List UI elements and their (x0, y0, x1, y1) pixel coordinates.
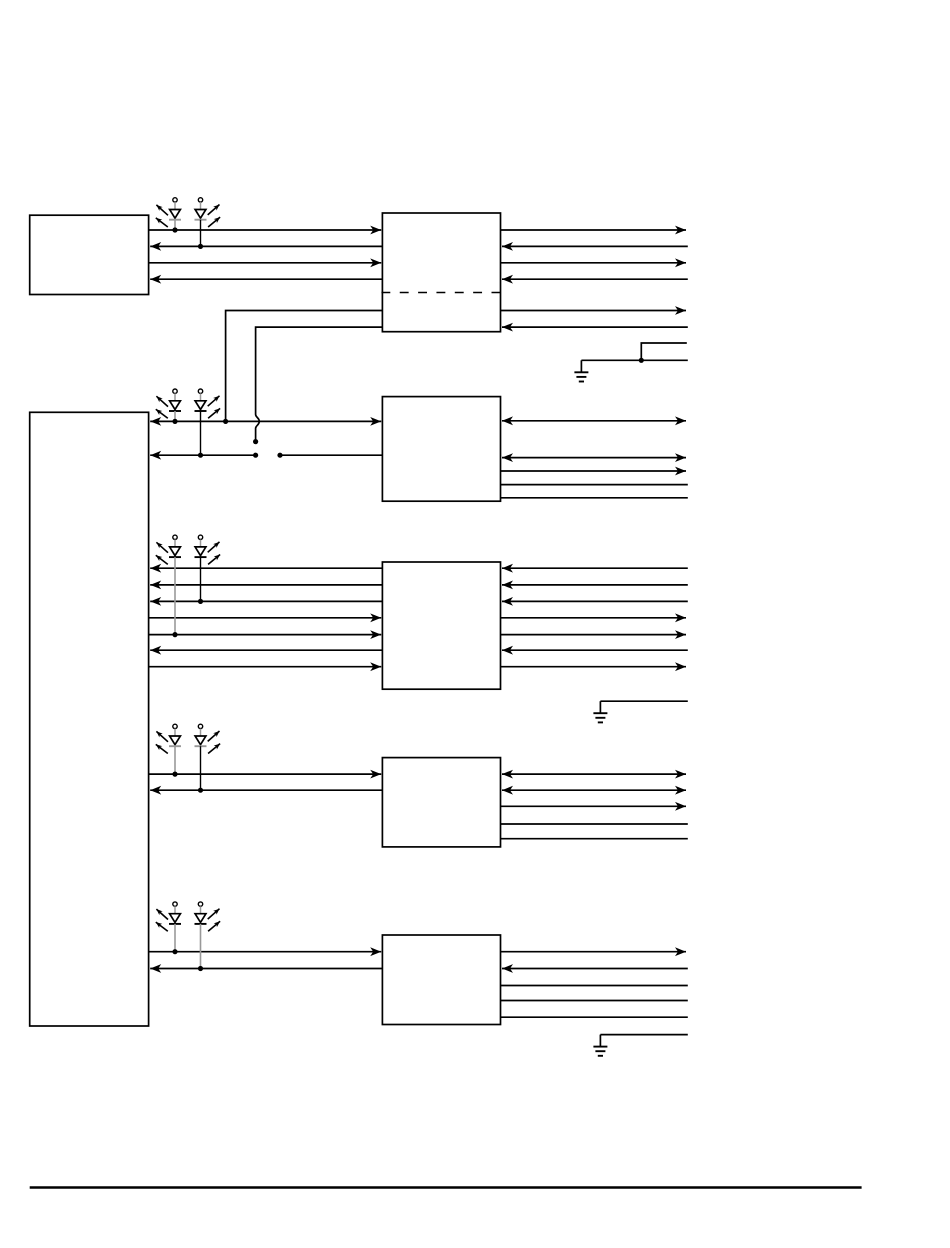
switch common contact dot (253, 439, 258, 444)
wire U5 to U2 line 1 (150, 567, 382, 569)
wire signal ground lower (581, 359, 687, 361)
LED DS4a (left, anode stem to wire) (169, 724, 181, 746)
LED DS1a (left, anode stem to wire) (169, 198, 181, 220)
wire U2 TX to U6 (149, 773, 382, 775)
wire U7 to U2 RX (150, 968, 382, 970)
wire CTS in to U3 (502, 278, 688, 280)
wire U4 line 4 (501, 484, 688, 486)
wire U5 to U2 line 2 (150, 584, 382, 586)
LED DS5b cathode lead (200, 924, 202, 969)
switch contact dot right (277, 453, 282, 458)
wire U5 out line 5 (501, 634, 687, 636)
wire in to U5 line 2 (502, 584, 688, 586)
junction dot LED DS1b (198, 244, 203, 249)
LED DS5b (right) (195, 902, 207, 924)
junction dot ground net 1 (639, 358, 644, 363)
interface block U3 (382, 213, 500, 332)
footer horizontal rule (30, 1186, 862, 1188)
junction dot LED DS1a (172, 227, 177, 232)
wire U3 TX out (501, 229, 687, 231)
LED DS2a light rays (156, 396, 168, 418)
wire U5 out line 4 (501, 617, 687, 619)
LED DS1b cathode lead (200, 220, 202, 247)
LED DS4a cathode lead (174, 746, 176, 774)
junction dot LED DS4a (172, 772, 177, 777)
wire signal ground upper (641, 343, 687, 360)
LED DS4b cathode lead (200, 746, 202, 790)
main controller block U2 (30, 412, 149, 1026)
wire U3 RTS out (501, 262, 687, 264)
wire U6 line 3 out (501, 805, 687, 807)
wire U3 lower pin to row2 bus (node A) (226, 311, 383, 422)
controller block U1 (30, 215, 149, 294)
wire U5 out line 7 (501, 666, 687, 668)
switch contact dot left (253, 453, 258, 458)
LED DS4a light rays (156, 731, 168, 753)
wire U5 to U2 line 6 (150, 649, 382, 651)
wire U4 line 5 (501, 497, 688, 499)
wire signal ground 3 (600, 1034, 687, 1036)
wire U6 line 5 (501, 838, 688, 840)
LED DS2a (left, anode stem to wire) (169, 389, 181, 411)
wire U2 to U5 line 7 (149, 666, 382, 668)
LED DS2b light rays (208, 396, 220, 419)
wire U4 line 3 out (501, 470, 687, 472)
junction dot LED DS2b (198, 453, 203, 458)
ground symbol 1 (574, 360, 588, 381)
wire in to U5 line 6 (502, 649, 688, 651)
interface block U7 (382, 935, 500, 1025)
LED DS1a cathode lead (174, 220, 176, 230)
wire U2 TX to U7 (149, 951, 382, 953)
LED DS5a light rays (156, 909, 168, 931)
wire U6 line 1 (bidirectional) (502, 773, 686, 775)
LED DS4b (right) (195, 724, 207, 746)
LED DS3a light rays (156, 542, 168, 564)
LED DS3b (right) (195, 535, 207, 557)
interface block U5 (382, 562, 500, 689)
wire U3 to U1 CTS (150, 278, 382, 280)
wire U3 lower pin with crossover hop to switch contact (256, 327, 383, 441)
LED DS2b cathode lead (200, 411, 202, 455)
wire U6 line 4 (501, 823, 688, 825)
junction dot LED DS5a (172, 949, 177, 954)
wire signal ground 2 (600, 700, 687, 702)
junction dot LED DS5b (198, 966, 203, 971)
wire U4 line 1 (bidirectional) (502, 420, 686, 422)
LED DS1b (right) (195, 198, 207, 220)
wire U7 line 3 (501, 985, 688, 987)
wire U3 to U1 RXD (150, 245, 382, 247)
LED DS2a cathode lead (174, 411, 176, 421)
LED DS5a (left, anode stem to wire) (169, 902, 181, 924)
LED DS3a cathode lead (174, 557, 176, 635)
wire U6 line 2 (bidirectional) (502, 789, 686, 791)
wire U1 TXD to U3 (149, 229, 382, 231)
wire U5 to U2 line 3 (150, 600, 382, 602)
wire U2 to U5 line 4 (149, 617, 382, 619)
wire RX in to U3 (502, 245, 688, 247)
wire in to U7 line 2 (502, 968, 688, 970)
junction dot LED DS3a (172, 632, 177, 637)
LED DS3b cathode lead (200, 557, 202, 601)
junction dot LED DS3b (198, 599, 203, 604)
LED DS5a cathode lead (174, 924, 176, 952)
wire U7 line 4 (501, 1000, 688, 1002)
LED DS3a (left, anode stem to wire) (169, 535, 181, 557)
interface block U6 (382, 758, 500, 847)
wire U7 line 1 out (501, 951, 687, 953)
interface block U4 (382, 397, 500, 502)
wire U7 line 5 (501, 1016, 688, 1018)
junction dot node A (223, 419, 228, 424)
wire U1 RTS to U3 (149, 262, 382, 264)
ground symbol 3 (593, 1035, 607, 1056)
wire U2 bus to U4 (bidirectional) (150, 420, 381, 422)
wire U3 DTR out (501, 310, 687, 312)
LED DS1b light rays (208, 205, 220, 228)
junction dot LED DS2a (172, 419, 177, 424)
LED DS1a light rays (156, 205, 168, 227)
LED DS4b light rays (208, 731, 220, 754)
wire switch to U4 (280, 454, 382, 456)
ground symbol 2 (593, 701, 607, 722)
LED DS2b (right) (195, 389, 207, 411)
LED DS3b light rays (208, 542, 220, 565)
wire U2 RX from switch (150, 454, 255, 456)
wire U4 line 2 (bidirectional) (502, 457, 686, 459)
wire U2 to U5 line 5 (149, 634, 382, 636)
wire in to U5 line 1 (502, 567, 688, 569)
junction dot LED DS4b (198, 788, 203, 793)
wire in to U5 line 3 (502, 600, 688, 602)
U3 internal dashed divider (381, 292, 500, 294)
wire DSR in to U3 (502, 326, 688, 328)
LED DS5b light rays (208, 909, 220, 932)
wire U6 to U2 RX (150, 789, 382, 791)
